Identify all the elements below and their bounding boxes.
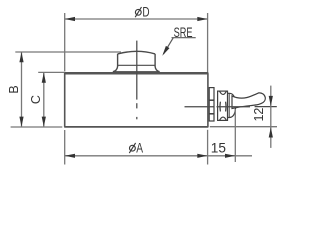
ØA label (129, 140, 143, 155)
connector flange plate (209, 88, 214, 121)
dimension ØA (65, 130, 252, 165)
connector nut (218, 91, 228, 120)
ØD label (135, 4, 150, 19)
dimension ØD (65, 13, 208, 72)
svg-text:B: B (7, 85, 21, 93)
C arrows (42, 72, 46, 127)
B C bottom extension line (11, 126, 63, 128)
button centerline (136, 41, 138, 120)
svg-text:12: 12 (252, 108, 266, 122)
load button (113, 51, 160, 71)
ØD arrows (65, 17, 208, 21)
dimension 15 (234, 109, 236, 162)
cable (232, 93, 265, 109)
cylinder bottom right extension line (210, 126, 277, 128)
15 arrow (225, 154, 235, 158)
svg-text:15: 15 (211, 140, 226, 155)
svg-text:D: D (142, 4, 149, 19)
svg-text:A: A (136, 140, 143, 155)
12 arrows (269, 96, 273, 138)
dimension C (38, 72, 64, 127)
dimension 12 (270, 86, 272, 148)
ØA arrows (65, 154, 208, 158)
cylinder body (64, 73, 208, 127)
dimension B (15, 52, 121, 127)
svg-text:C: C (29, 95, 43, 104)
SRE label (162, 25, 195, 56)
connector centerline (185, 106, 277, 108)
connector dome (228, 93, 236, 117)
B arrows (19, 52, 23, 127)
